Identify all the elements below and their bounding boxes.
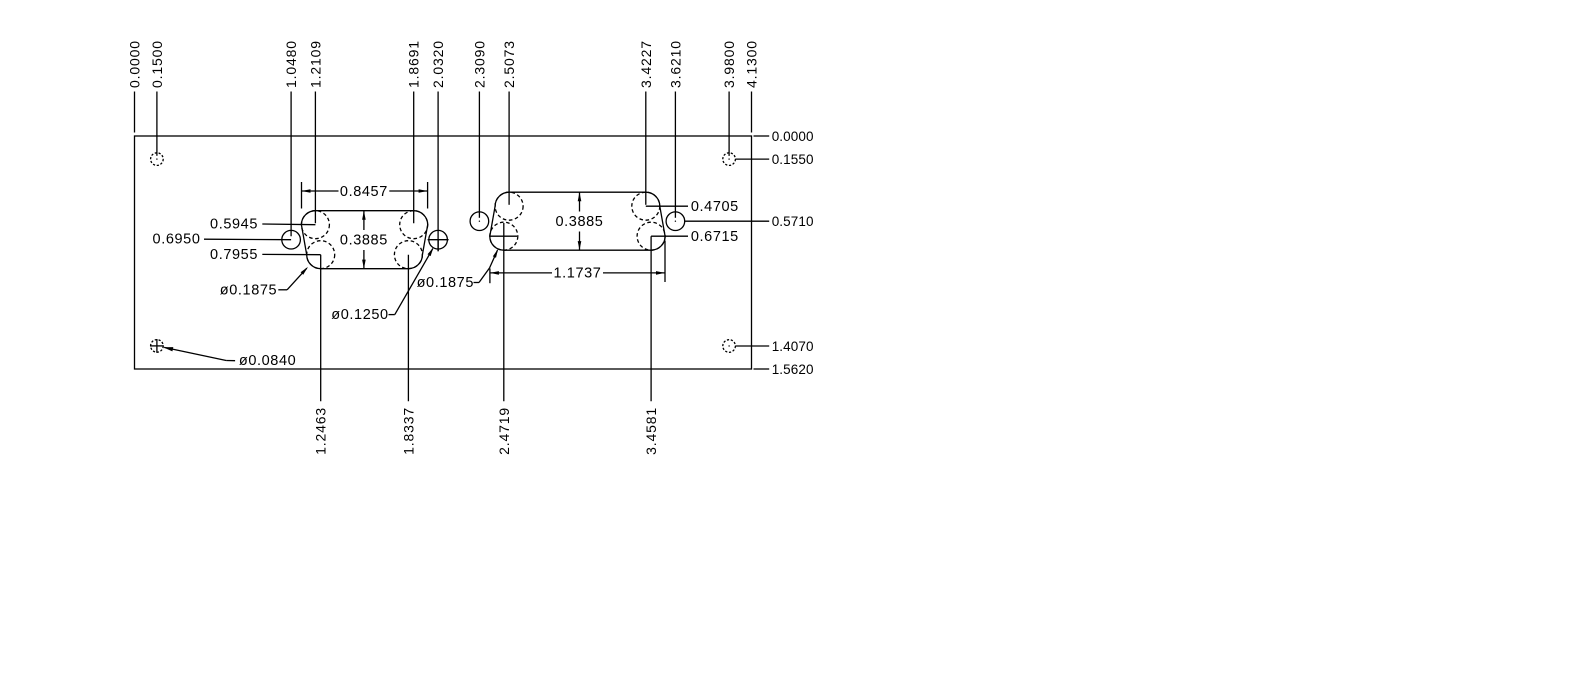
svg-text:0.5945: 0.5945	[210, 217, 258, 233]
top ordinate 2.0320	[430, 40, 446, 251]
svg-text:1.2109: 1.2109	[307, 40, 323, 88]
svg-text:0.4705: 0.4705	[691, 199, 739, 215]
leader Ø0.0840	[163, 347, 296, 369]
leader Ø0.1875 left	[220, 267, 308, 299]
svg-text:ø0.0840: ø0.0840	[239, 353, 296, 369]
top ordinate 2.5073	[501, 40, 517, 205]
dimension 0.3885 left	[340, 211, 388, 269]
svg-text:0.5710: 0.5710	[772, 214, 814, 229]
right pin hole bottom-left Ø0.1875	[490, 222, 518, 250]
top ordinate 3.4227	[638, 40, 654, 205]
svg-text:1.8691: 1.8691	[406, 40, 422, 88]
right pin hole bottom-right Ø0.1875	[637, 222, 665, 250]
svg-text:0.1500: 0.1500	[149, 40, 165, 88]
svg-text:4.1300: 4.1300	[744, 40, 760, 88]
right pin hole top-left Ø0.1875	[495, 192, 523, 220]
svg-text:0.6950: 0.6950	[153, 232, 201, 248]
top ordinate 2.3090	[471, 40, 487, 218]
svg-text:1.2463: 1.2463	[313, 407, 329, 455]
leader 0.4705	[646, 199, 739, 215]
bottom ordinate 3.4581	[643, 236, 659, 455]
svg-text:2.4719: 2.4719	[496, 407, 512, 455]
leader 0.6950	[153, 232, 292, 248]
top ordinate 4.1300	[744, 40, 760, 132]
svg-text:1.8337: 1.8337	[400, 407, 416, 455]
left pin hole top-right Ø0.1875	[400, 211, 428, 239]
svg-text:0.1550: 0.1550	[772, 152, 814, 167]
corner hole top-right Ø0.0840	[723, 153, 736, 166]
right small hole left Ø0.1250	[470, 212, 489, 231]
top ordinate 0.0000	[127, 40, 143, 132]
leader Ø0.1875 right	[417, 249, 499, 291]
leader 0.7955	[210, 247, 321, 263]
svg-text:ø0.1875: ø0.1875	[417, 275, 474, 291]
bottom ordinate 2.4719	[496, 223, 512, 455]
right ordinate 1.5620	[754, 362, 814, 377]
top ordinate 3.6210	[667, 40, 683, 218]
corner hole bottom-left Ø0.0840 with crosshair	[150, 339, 164, 353]
right pin hole top-right Ø0.1875	[632, 192, 660, 220]
corner hole top-left Ø0.0840	[151, 153, 164, 166]
svg-text:0.0000: 0.0000	[772, 129, 814, 144]
svg-text:3.6210: 3.6210	[667, 40, 683, 88]
svg-text:2.3090: 2.3090	[471, 40, 487, 88]
svg-text:0.7955: 0.7955	[210, 247, 258, 263]
left pin hole bottom-right Ø0.1875	[394, 241, 422, 269]
svg-text:0.0000: 0.0000	[127, 40, 143, 88]
svg-text:2.5073: 2.5073	[501, 40, 517, 88]
right pin hole bottom-left crosshair	[491, 235, 518, 237]
right ordinate 0.5710	[685, 214, 814, 229]
bottom ordinate 1.2463	[313, 255, 329, 455]
svg-text:2.0320: 2.0320	[430, 40, 446, 88]
svg-text:3.4581: 3.4581	[643, 407, 659, 455]
svg-text:0.6715: 0.6715	[691, 229, 739, 245]
leader Ø0.1250	[331, 247, 433, 323]
right ordinate 1.4070	[735, 339, 813, 354]
leader 0.6715	[651, 229, 739, 245]
svg-text:1.5620: 1.5620	[772, 362, 814, 377]
svg-text:ø0.1250: ø0.1250	[331, 307, 388, 323]
bottom ordinate 1.8337	[400, 255, 416, 455]
top ordinate 0.1500	[149, 40, 165, 156]
left small hole Ø0.1250	[282, 230, 301, 249]
right D-sub shell outline	[490, 192, 665, 250]
svg-text:3.4227: 3.4227	[638, 40, 654, 88]
left pin hole top-left Ø0.1875	[301, 211, 329, 239]
right small hole right Ø0.1250	[666, 212, 685, 231]
top ordinate 1.2109	[307, 40, 323, 223]
svg-text:0.3885: 0.3885	[556, 214, 604, 230]
dimension 0.8457	[302, 182, 428, 209]
top ordinate 3.9800	[721, 40, 737, 156]
dimension 0.3885 right	[556, 192, 604, 250]
corner hole bottom-right Ø0.0840	[723, 340, 736, 353]
svg-text:1.4070: 1.4070	[772, 339, 814, 354]
svg-text:1.1737: 1.1737	[554, 266, 602, 282]
leader 0.5945	[210, 217, 315, 233]
svg-text:1.0480: 1.0480	[283, 40, 299, 88]
plate outline	[135, 136, 752, 369]
svg-text:ø0.1875: ø0.1875	[220, 283, 277, 299]
right ordinate 0.1550	[735, 152, 813, 167]
top ordinate 1.8691	[406, 40, 422, 223]
left crosshair hole Ø0.1250	[428, 230, 449, 251]
top ordinate 1.0480	[283, 40, 299, 236]
svg-text:3.9800: 3.9800	[721, 40, 737, 88]
left D-sub shell outline	[301, 211, 427, 269]
right ordinate 0.0000	[754, 129, 814, 144]
svg-text:0.8457: 0.8457	[340, 184, 388, 200]
left pin hole bottom-left Ø0.1875	[307, 241, 335, 269]
svg-text:0.3885: 0.3885	[340, 233, 388, 249]
dimension 1.1737	[490, 241, 665, 284]
